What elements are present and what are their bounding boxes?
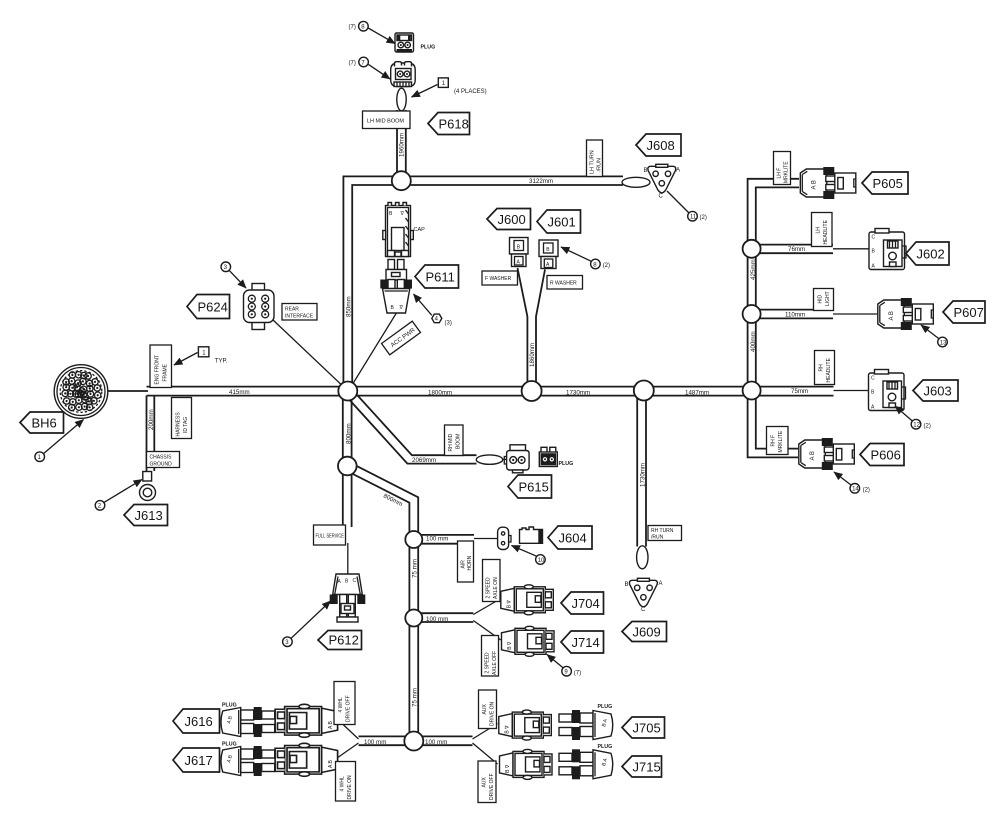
svg-text:1860mm: 1860mm	[529, 343, 536, 367]
svg-text:(3): (3)	[445, 321, 452, 327]
connector P612	[330, 574, 366, 622]
connector P618 mating half (item 7)	[391, 62, 416, 87]
flag P611	[415, 265, 459, 288]
node: 800mm junction	[338, 457, 357, 476]
svg-text:TYP.: TYP.	[215, 359, 228, 365]
svg-text:/RUN: /RUN	[651, 535, 664, 541]
connector P611	[380, 260, 412, 314]
svg-text:∇: ∇	[399, 305, 404, 311]
flag P605	[862, 172, 908, 194]
svg-text:P607: P607	[954, 305, 984, 320]
svg-text:LH TURN: LH TURN	[590, 150, 596, 174]
label box ACC PWR rotated	[382, 321, 421, 355]
svg-text:C: C	[353, 578, 357, 584]
svg-text:100 mm: 100 mm	[425, 739, 447, 746]
svg-text:A: A	[659, 581, 663, 587]
svg-text:AUX: AUX	[482, 704, 488, 715]
svg-text:PLUG: PLUG	[598, 704, 613, 710]
label box AUX DRIVE ON	[479, 690, 497, 729]
wire: main trunk 415mm/1800mm/1730mm/1487mm/75mm	[147, 387, 834, 396]
svg-text:LH MID BOOM: LH MID BOOM	[367, 119, 404, 125]
connector J600	[510, 238, 529, 267]
svg-text:P612: P612	[329, 633, 359, 648]
svg-text:PLUG: PLUG	[421, 45, 436, 51]
connector J608 triangle	[644, 164, 681, 199]
svg-text:(7): (7)	[349, 25, 356, 31]
svg-text:PLUG: PLUG	[222, 703, 237, 709]
svg-text:GROUND: GROUND	[150, 462, 173, 468]
callout 9 J714	[547, 655, 581, 677]
connector P615 plug	[539, 447, 557, 466]
flag J608	[636, 134, 681, 156]
wire: washer drop 1860mm with V to J600 J601	[518, 268, 546, 391]
svg-text:J617: J617	[185, 753, 213, 768]
svg-text:1730mm: 1730mm	[640, 463, 647, 487]
flag J704	[561, 592, 604, 614]
label box 2 SPEED AXLE OFF	[482, 636, 499, 677]
label box ENG FRONT FRAME	[150, 345, 172, 388]
svg-text:1800mm: 1800mm	[428, 390, 452, 397]
connector J616 plug	[221, 707, 275, 737]
wire: chassis ground drop 200mm	[147, 396, 155, 471]
svg-text:A B: A B	[328, 721, 334, 729]
connector P615	[504, 445, 529, 473]
svg-text:J715: J715	[633, 760, 661, 775]
connector J602	[869, 229, 906, 270]
flag J613	[124, 505, 168, 526]
flag J602	[906, 242, 949, 265]
svg-text:INTERFACE: INTERFACE	[285, 314, 314, 320]
svg-text:AIR: AIR	[461, 560, 467, 569]
callout 11 J608	[667, 191, 707, 221]
connector CAP above P611	[383, 203, 414, 257]
wire: J705/J715 branch 100mm with V	[418, 724, 497, 765]
svg-text:LH: LH	[816, 227, 822, 234]
label box RH F MRKLITE	[767, 427, 789, 455]
svg-text:425mm: 425mm	[750, 259, 757, 280]
label box AUX DRIVE OFF	[478, 761, 496, 803]
flag J714	[561, 631, 604, 653]
flag J705	[622, 717, 665, 738]
label box LH HEADLITE	[812, 213, 833, 247]
node: washer junction	[522, 381, 542, 401]
wire: 800mm drop from trunk node	[343, 391, 352, 466]
svg-text:P615: P615	[519, 480, 549, 495]
svg-text:2069mm: 2069mm	[412, 457, 436, 464]
svg-text:B: B	[625, 582, 629, 588]
svg-text:J601: J601	[548, 215, 576, 230]
node: right trunk P607 junction	[743, 305, 761, 323]
callout 1 BH6	[35, 420, 84, 462]
wire: P618 riser 1960mm	[397, 110, 406, 180]
callout 3 P612	[283, 601, 331, 647]
svg-text:P605: P605	[873, 176, 903, 191]
wire: 1730mm drop to J609	[637, 391, 646, 547]
svg-text:BOOM: BOOM	[456, 434, 462, 449]
connector J601	[539, 240, 558, 269]
svg-text:DRIVE OFF: DRIVE OFF	[489, 773, 495, 800]
svg-text:DRIVE ON: DRIVE ON	[490, 701, 496, 726]
connector J715 receptacle	[500, 749, 553, 779]
svg-text:PLUG: PLUG	[222, 742, 237, 748]
connector J714	[502, 626, 555, 656]
flag BH6	[20, 412, 64, 433]
connector P607	[878, 298, 934, 330]
flag P607	[943, 301, 985, 323]
wire: 3122mm to J608	[401, 176, 623, 185]
flag P618	[428, 113, 470, 135]
svg-text:HID: HID	[818, 295, 824, 304]
svg-text:MRKLITE: MRKLITE	[784, 161, 790, 183]
callout 14 P606	[834, 472, 870, 494]
svg-text:13: 13	[940, 340, 947, 346]
svg-text:14: 14	[852, 487, 859, 493]
label box 4 WHL DRIVE ON	[336, 762, 356, 802]
svg-text:CAP: CAP	[414, 227, 426, 233]
svg-text:J604: J604	[559, 531, 587, 546]
svg-text:A B: A B	[328, 760, 334, 768]
svg-text:800mm: 800mm	[345, 423, 352, 444]
node: right trunk J602 junction	[743, 240, 761, 258]
label box REAR INTERFACE	[282, 304, 317, 321]
svg-text:J608: J608	[647, 138, 675, 153]
svg-text:10: 10	[538, 558, 545, 564]
wire: 850mm L from trunk node to P618 node	[343, 176, 401, 391]
svg-text:J609: J609	[633, 625, 661, 640]
flag J600	[487, 209, 531, 230]
wire: right trunk vertical 425mm/400mm with corners to P605 and P606	[748, 179, 799, 458]
svg-text:75mm: 75mm	[791, 388, 808, 395]
connector J616 receptacle	[275, 704, 337, 737]
connector J617 plug	[221, 746, 275, 776]
svg-text:R WASHER: R WASHER	[550, 281, 577, 287]
flag J604	[548, 526, 592, 549]
svg-text:100 mm: 100 mm	[426, 616, 448, 623]
wire: BH6 lead	[107, 390, 148, 392]
flag J617	[173, 748, 220, 772]
label box LH F MRKLITE	[774, 152, 791, 185]
callout 8 washers	[561, 247, 610, 269]
svg-text:2 SPEED: 2 SPEED	[485, 652, 491, 674]
label box RH MID BOOM	[445, 425, 464, 456]
callout 7	[349, 57, 391, 79]
node: bottom junction	[404, 732, 423, 751]
svg-text:FULL SERVICE: FULL SERVICE	[316, 534, 345, 540]
grommet P618	[397, 88, 406, 111]
label box F WASHER	[482, 271, 518, 285]
svg-text:4 WHL: 4 WHL	[338, 697, 344, 713]
svg-text:PLUG: PLUG	[559, 461, 574, 467]
svg-text:HARNESS: HARNESS	[176, 412, 182, 437]
svg-text:(4 PLACES): (4 PLACES)	[454, 89, 487, 95]
svg-text:415mm: 415mm	[229, 389, 250, 396]
svg-text:HEADLITE: HEADLITE	[826, 357, 832, 382]
flag P624	[187, 295, 230, 319]
svg-text:LH F: LH F	[777, 168, 783, 179]
callout 12 J603	[895, 406, 931, 430]
flag J616	[173, 709, 220, 733]
label box R WASHER	[547, 276, 583, 290]
connector J705 receptacle	[499, 710, 552, 740]
label box 4 WHL DRIVE OFF	[334, 682, 355, 725]
svg-text:(2): (2)	[603, 263, 610, 269]
svg-text:B ∇: B ∇	[504, 725, 510, 734]
svg-text:(2): (2)	[924, 424, 931, 430]
node: J704 junction	[405, 610, 422, 627]
svg-text:CHASSIS: CHASSIS	[150, 455, 173, 461]
svg-text:11: 11	[690, 215, 697, 221]
svg-text:100 mm: 100 mm	[364, 739, 386, 746]
svg-text:HEADLITE: HEADLITE	[823, 219, 829, 244]
svg-text:C: C	[659, 194, 664, 200]
svg-text:F WASHER: F WASHER	[485, 276, 512, 282]
svg-text:4 WHL: 4 WHL	[340, 776, 346, 792]
svg-text:1487mm: 1487mm	[685, 390, 709, 397]
callout 1 typ	[174, 347, 228, 365]
label box LH MID BOOM	[363, 111, 411, 129]
wire: J704/J714 branch 100mm with V	[418, 599, 501, 641]
svg-text:DRIVE ON: DRIVE ON	[347, 775, 353, 800]
node: right trunk J603 junction	[743, 382, 761, 400]
svg-text:(2): (2)	[863, 488, 870, 494]
flag P615	[508, 475, 552, 498]
svg-text:75 mm: 75 mm	[412, 559, 419, 578]
svg-text:(2): (2)	[700, 215, 707, 221]
svg-text:PLUG: PLUG	[598, 744, 613, 750]
callout 8 top	[349, 21, 396, 43]
svg-text:DRIVE OFF: DRIVE OFF	[346, 695, 352, 722]
ICONS	[54, 365, 108, 419]
grommet J609	[637, 546, 648, 569]
svg-text:REAR: REAR	[285, 307, 299, 313]
flag P612	[318, 631, 362, 650]
svg-text:110mm: 110mm	[785, 312, 805, 319]
svg-text:J616: J616	[185, 714, 213, 729]
svg-text:J603: J603	[924, 384, 952, 399]
wire: J603 lead	[834, 390, 870, 392]
svg-text:RH MID: RH MID	[448, 433, 454, 451]
label box LH TURN /RUN	[587, 140, 603, 177]
wire: J604 branch 100mm	[418, 535, 497, 544]
callout 2 J613	[95, 480, 142, 511]
svg-text:BH6: BH6	[32, 416, 57, 431]
wire: full service drop to P612	[343, 466, 352, 574]
svg-text:J602: J602	[917, 247, 945, 262]
connector J705 plug	[559, 710, 613, 740]
svg-text:MRKLITE: MRKLITE	[778, 430, 784, 452]
wire: P611 ACC PWR diagonal lead	[349, 312, 397, 390]
label box HARNESS ID TAG	[172, 398, 192, 439]
label box FULL SERVICE	[314, 525, 346, 545]
svg-text:RH TURN: RH TURN	[651, 528, 674, 534]
connector P624	[244, 284, 275, 330]
connector J604	[498, 527, 511, 549]
wire: P607 branch 110mm	[756, 310, 878, 319]
callout 4 P611	[414, 294, 452, 327]
label box AIR HORN	[458, 541, 474, 582]
svg-text:J705: J705	[633, 721, 661, 736]
svg-text:400mm: 400mm	[750, 331, 757, 352]
label box HID LIGHT	[814, 289, 834, 311]
svg-text:12: 12	[913, 423, 920, 429]
node: J604 junction	[405, 531, 422, 548]
svg-text:B ∇: B ∇	[507, 641, 513, 650]
svg-text:AUX: AUX	[482, 777, 488, 788]
flag J715	[622, 756, 662, 777]
grommet P615	[476, 455, 502, 464]
svg-text:/RUN: /RUN	[597, 158, 603, 171]
svg-text:B: B	[644, 168, 648, 174]
wire: J616/J617 branch 100mm with V	[338, 720, 410, 758]
connector P605	[800, 167, 856, 199]
svg-text:100 mm: 100 mm	[426, 536, 448, 543]
svg-text:AXLE OFF: AXLE OFF	[492, 651, 498, 675]
svg-text:RH F: RH F	[771, 435, 777, 447]
svg-text:AXLE ON: AXLE ON	[493, 577, 499, 599]
svg-text:A: A	[676, 168, 680, 174]
wire: lower riser 75mm 75mm	[409, 540, 418, 742]
svg-text:(7): (7)	[574, 671, 581, 677]
callout 1 four places	[412, 78, 487, 97]
svg-text:RH: RH	[819, 364, 825, 372]
wire: 800mm diagonal to lower riser	[345, 462, 418, 539]
connector J603	[869, 370, 906, 411]
svg-text:∇: ∇	[400, 211, 405, 217]
connector BH6 bulkhead	[54, 365, 108, 419]
svg-text:P624: P624	[198, 300, 228, 315]
node: J609 junction	[634, 381, 654, 401]
svg-text:76mm: 76mm	[788, 246, 805, 253]
svg-text:B ∇: B ∇	[505, 764, 511, 773]
grommet J608	[622, 177, 650, 187]
svg-text:B ∇: B ∇	[506, 600, 512, 609]
callout 10 J604	[512, 546, 546, 565]
svg-text:850mm: 850mm	[345, 296, 352, 317]
label box 2 SPEED AXLE ON	[483, 560, 501, 602]
svg-text:2 SPEED: 2 SPEED	[486, 577, 492, 599]
wire: 2069mm diagonal to P615	[345, 389, 507, 464]
svg-text:LIGHT: LIGHT	[825, 291, 831, 306]
svg-text:75 mm: 75 mm	[412, 688, 419, 707]
flag J603	[913, 380, 958, 401]
connector J609 triangle	[625, 578, 663, 613]
node: main trunk hub	[338, 382, 357, 401]
connector J715 plug	[559, 749, 613, 779]
svg-text:J704: J704	[572, 596, 600, 611]
connector top plug (item 8)	[395, 33, 414, 52]
flag J601	[537, 210, 581, 233]
icon air horn J604	[520, 527, 543, 543]
svg-text:P618: P618	[439, 117, 469, 132]
svg-text:ENG FRONT: ENG FRONT	[155, 355, 161, 384]
label box CHASSIS GROUND	[147, 452, 180, 468]
svg-text:ID TAG: ID TAG	[183, 417, 189, 433]
label box RH TURN /RUN	[648, 526, 682, 541]
svg-text:P611: P611	[426, 270, 455, 285]
node: P618 junction	[392, 171, 411, 190]
label box RH HEADLITE	[815, 351, 835, 385]
svg-text:C: C	[641, 607, 646, 613]
svg-text:(7): (7)	[349, 61, 356, 67]
svg-text:J714: J714	[572, 635, 600, 650]
svg-text:HORN: HORN	[467, 555, 473, 570]
connector J617 receptacle	[275, 743, 337, 776]
svg-text:3122mm: 3122mm	[529, 178, 553, 185]
wire: P624 diagonal lead	[272, 319, 348, 391]
callout 3 P624	[221, 262, 246, 288]
flag P606	[860, 444, 904, 466]
connector J704	[501, 585, 554, 615]
svg-text:1960mm: 1960mm	[399, 133, 406, 157]
connector J613 chassis ground ring terminal	[140, 472, 156, 501]
flag J609	[622, 622, 667, 642]
svg-text:FRAME: FRAME	[163, 363, 169, 381]
callout 13 P607	[921, 325, 947, 347]
svg-text:1730mm: 1730mm	[566, 390, 590, 397]
svg-text:J613: J613	[135, 508, 163, 523]
svg-text:P606: P606	[871, 448, 901, 463]
wire: J602 branch 76mm	[756, 245, 870, 254]
svg-text:J600: J600	[498, 212, 526, 227]
svg-text:200mm: 200mm	[148, 409, 155, 430]
connector P606	[799, 438, 855, 470]
